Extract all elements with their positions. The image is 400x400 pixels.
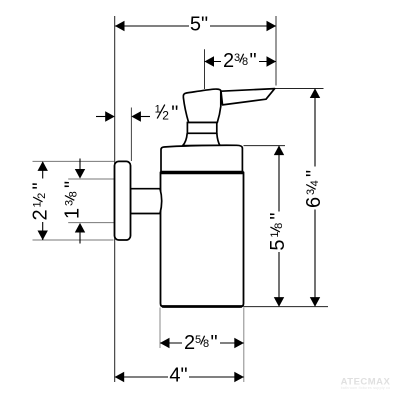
svg-text:3: 3 bbox=[305, 189, 317, 195]
extension lines of 2-1/2in dim bbox=[33, 160, 115, 162]
svg-text:": " bbox=[211, 332, 218, 354]
svg-text:bathroom fixtures supply co: bathroom fixtures supply co bbox=[341, 386, 391, 390]
svg-text:8: 8 bbox=[242, 56, 248, 68]
shoulder thick line bbox=[161, 171, 244, 174]
dimension 5-1/8in arrow bottom bbox=[274, 297, 284, 307]
mounting arm bbox=[131, 189, 162, 214]
watermark bbox=[341, 377, 391, 391]
svg-text:8: 8 bbox=[273, 223, 285, 229]
extension line of 1/2in dim (plate front) bbox=[130, 108, 132, 162]
dimension 1-3/8in label (rotated) bbox=[62, 181, 84, 219]
dimension 2-1/2in arrow bottom bbox=[38, 231, 48, 241]
dimension 5-1/8in arrow top bbox=[274, 146, 284, 156]
dimension 4in arrow left bbox=[115, 372, 125, 382]
dimension 2-5/8in label bbox=[182, 332, 220, 354]
svg-text:6: 6 bbox=[303, 197, 325, 208]
reference line top of 6-3/4in dim (from spout tip) bbox=[272, 88, 324, 90]
dimension 2-3/8in line bbox=[205, 61, 277, 63]
dimension 2-1/2in label (rotated) bbox=[30, 182, 52, 220]
svg-text:5: 5 bbox=[267, 239, 289, 250]
svg-text:8: 8 bbox=[68, 191, 80, 197]
svg-text:2: 2 bbox=[36, 193, 48, 199]
dimension 2-3/8in label bbox=[221, 50, 259, 72]
dimension 6-3/4in arrow bottom bbox=[310, 297, 320, 307]
dimension 5in label bbox=[189, 15, 210, 32]
dimension 2-5/8in arrow right bbox=[234, 338, 244, 348]
svg-text:1: 1 bbox=[269, 231, 281, 237]
dimension 5-1/8in line bbox=[278, 146, 280, 212]
dimension 2-3/8in arrow left bbox=[204, 56, 214, 66]
dimension 2-1/2in arrow top bbox=[38, 161, 48, 171]
spout lever bbox=[221, 89, 275, 105]
dimension 1-3/8in bottom arrow bbox=[79, 232, 81, 244]
dimension 5in arrow right bbox=[267, 21, 277, 31]
dimension 4in label bbox=[168, 366, 189, 383]
extension line left of 2-3/8in dim bbox=[204, 49, 206, 89]
extension lines of 2-5/8in dim bbox=[159, 308, 161, 349]
extension line right of 5in and 2-3/8in dims bbox=[275, 16, 277, 86]
dimension 4in arrow right bbox=[234, 372, 244, 382]
dimension 5in line bbox=[115, 25, 276, 27]
svg-text:": " bbox=[250, 50, 257, 72]
svg-text:4": 4" bbox=[169, 365, 187, 387]
svg-text:5": 5" bbox=[190, 14, 208, 36]
dimension 6-3/4in arrow top bbox=[310, 88, 320, 98]
svg-text:8: 8 bbox=[203, 338, 209, 350]
reference line top of 5-1/8in dim (from lid) bbox=[244, 145, 286, 147]
container bottom edge bbox=[162, 305, 242, 308]
svg-text:3: 3 bbox=[64, 200, 76, 206]
pump collar bbox=[183, 133, 220, 145]
dimension 1/2in left tail and arrow bbox=[96, 116, 106, 118]
svg-text:": " bbox=[171, 102, 178, 124]
extension lines of 1-3/8in dim bbox=[68, 178, 114, 180]
dimension 5in arrow left bbox=[115, 21, 125, 31]
dimension 1-3/8in top arrow bbox=[79, 159, 81, 171]
svg-text:4: 4 bbox=[309, 180, 321, 186]
dimension 2-5/8in arrow left bbox=[160, 338, 170, 348]
svg-text:2: 2 bbox=[30, 209, 52, 220]
container body bbox=[161, 172, 244, 306]
dimension 1/2in right arrow and tail bbox=[131, 111, 141, 121]
dimension 6-3/4in label (rotated) bbox=[303, 170, 325, 208]
svg-text:": " bbox=[303, 170, 325, 177]
container lid bbox=[161, 145, 242, 172]
pump knob bbox=[183, 89, 220, 122]
wall line bbox=[114, 16, 116, 382]
dimension 4in line bbox=[115, 376, 244, 378]
svg-text:1: 1 bbox=[32, 201, 44, 207]
dimension 5-1/8in label (rotated) bbox=[267, 212, 289, 250]
pump neck bbox=[187, 123, 216, 134]
svg-text:": " bbox=[267, 212, 289, 219]
svg-text:2: 2 bbox=[223, 50, 234, 72]
svg-text:": " bbox=[62, 181, 84, 188]
svg-text:2: 2 bbox=[184, 332, 195, 354]
dimension 2-5/8in line bbox=[160, 342, 244, 344]
dimension 1/2in label bbox=[155, 102, 179, 124]
dimension 6-3/4in line bbox=[314, 89, 316, 167]
reference line bottom right bbox=[244, 306, 329, 308]
dimension 2-3/8in arrow right bbox=[267, 56, 277, 66]
svg-text:2: 2 bbox=[162, 109, 169, 123]
dimension 2-1/2in line bbox=[42, 162, 44, 179]
svg-text:": " bbox=[30, 182, 52, 189]
svg-text:1: 1 bbox=[62, 208, 84, 219]
wall plate bbox=[115, 161, 131, 240]
